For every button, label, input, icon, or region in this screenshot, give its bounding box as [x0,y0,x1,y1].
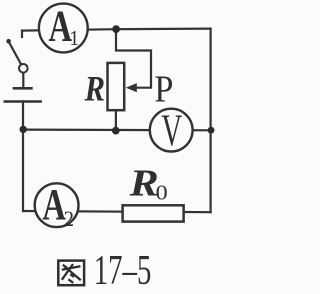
svg-text:V: V [161,106,182,156]
svg-text:R: R [129,162,159,204]
svg-text:2: 2 [64,207,74,232]
svg-text:17–5: 17–5 [94,247,152,294]
svg-text:0: 0 [156,181,168,204]
svg-text:R: R [84,69,105,109]
svg-text:A: A [42,181,66,229]
svg-text:P: P [154,68,173,110]
svg-text:1: 1 [69,27,79,50]
